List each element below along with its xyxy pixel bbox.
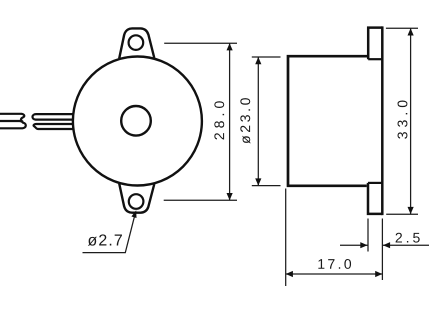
top mounting ear <box>119 28 154 58</box>
side view bottom ear (flange tab) <box>368 183 382 214</box>
dimension 2.5 left arrow tail <box>340 244 368 246</box>
arrowhead 17.0 left (pointing left) <box>286 271 293 277</box>
arrowhead 17.0 right (pointing right) <box>375 271 382 277</box>
dimension line ø23.0 <box>257 57 259 186</box>
extension line flange left edge (2.5) <box>367 219 369 252</box>
extension line flange right (17.0 / 2.5) <box>381 219 383 281</box>
extension line hole-centre bottom (28.0) <box>164 199 237 201</box>
side view body rectangle <box>288 56 367 186</box>
label 33.0 <box>398 100 408 138</box>
bottom ear hole <box>129 194 144 209</box>
label ø2.7 <box>88 234 122 245</box>
extension line hole-centre top (28.0) <box>164 42 237 44</box>
arrowhead 33.0 bottom <box>408 207 414 214</box>
extension line body left (17.0) <box>285 189 287 287</box>
side view top ear (flange tab) <box>368 28 382 60</box>
bottom mounting ear <box>119 184 154 213</box>
extension line circle top (ø23.0) <box>252 56 281 58</box>
wire pair left segment <box>0 114 26 129</box>
dimension 2.5 right tail <box>383 244 429 246</box>
label 17.0 <box>318 259 351 269</box>
dimension line 28.0 <box>229 43 231 200</box>
arrowhead 33.0 top <box>408 28 414 35</box>
extension line flange top (33.0) <box>386 27 418 29</box>
side view bottom ear top edge <box>368 182 382 184</box>
arrowhead ø23.0 top <box>255 57 261 64</box>
arrowhead ø2.7 leader <box>131 210 136 218</box>
top ear hole <box>129 35 144 50</box>
arrowhead 28.0 top <box>227 43 233 50</box>
arrowhead 28.0 bottom <box>227 193 233 200</box>
extension line circle bottom (ø23.0) <box>252 185 281 187</box>
side view right face edge <box>381 26 384 215</box>
dimension line 33.0 <box>410 28 412 214</box>
dimension line 17.0 <box>286 273 383 275</box>
extension line flange bottom (33.0) <box>386 213 418 215</box>
label ø23.0 <box>240 98 250 144</box>
arrowhead 2.5 right (pointing left) <box>383 242 390 248</box>
label 2.5 <box>396 233 420 243</box>
center sound hole <box>121 106 151 136</box>
label 28.0 <box>214 101 224 139</box>
buzzer body front view (big circle) <box>73 57 202 186</box>
side view top ear bottom edge <box>368 58 382 60</box>
arrowhead 2.5 left (pointing right) <box>360 242 367 248</box>
arrowhead ø23.0 bottom <box>255 178 261 185</box>
wire pair right segment <box>32 114 73 129</box>
leader line ø2.7 <box>83 213 136 253</box>
